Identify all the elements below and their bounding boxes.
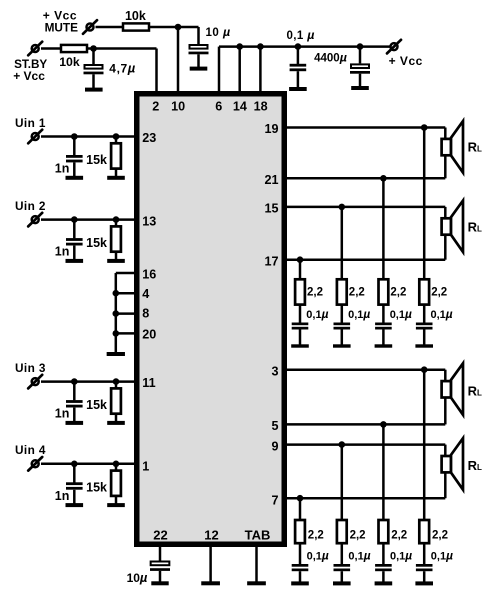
svg-text:Uin 3: Uin 3 (15, 361, 46, 375)
svg-text:0,1µ: 0,1µ (390, 307, 412, 321)
svg-text:15: 15 (264, 201, 278, 215)
svg-text:Uin 2: Uin 2 (15, 199, 46, 213)
svg-text:1n: 1n (55, 162, 70, 176)
svg-text:2,2: 2,2 (431, 287, 447, 299)
svg-text:14: 14 (233, 99, 247, 113)
svg-text:6: 6 (215, 99, 222, 113)
svg-text:TAB: TAB (245, 528, 271, 543)
svg-text:2,2: 2,2 (350, 529, 366, 541)
svg-text:2,2: 2,2 (349, 287, 365, 299)
svg-text:3: 3 (271, 365, 278, 379)
svg-text:4400µ: 4400µ (314, 50, 347, 64)
svg-text:15k: 15k (86, 153, 107, 167)
svg-text:0,1µ: 0,1µ (348, 548, 370, 562)
svg-text:19: 19 (264, 122, 278, 136)
svg-text:22: 22 (153, 528, 167, 543)
svg-text:MUTE: MUTE (45, 21, 79, 35)
svg-text:2: 2 (152, 99, 159, 113)
svg-text:1n: 1n (55, 245, 70, 259)
svg-text:2,2: 2,2 (432, 529, 448, 541)
svg-text:0,1µ: 0,1µ (307, 548, 329, 562)
svg-text:+ Vcc: + Vcc (389, 54, 423, 68)
svg-text:1n: 1n (55, 407, 70, 421)
svg-text:10k: 10k (59, 55, 80, 69)
svg-text:15k: 15k (86, 236, 107, 250)
svg-text:10 µ: 10 µ (206, 25, 231, 39)
svg-text:5: 5 (271, 419, 278, 433)
svg-text:Uin 4: Uin 4 (15, 443, 46, 457)
svg-text:0,1µ: 0,1µ (306, 307, 328, 321)
svg-text:2,2: 2,2 (391, 529, 407, 541)
svg-text:2,2: 2,2 (307, 287, 323, 299)
svg-text:+ Vcc: + Vcc (13, 69, 45, 83)
svg-text:7: 7 (271, 494, 278, 508)
svg-text:0,1µ: 0,1µ (431, 548, 453, 562)
svg-text:2,2: 2,2 (390, 287, 406, 299)
svg-text:10k: 10k (125, 9, 146, 23)
svg-text:Uin 1: Uin 1 (15, 116, 46, 130)
svg-text:4: 4 (142, 287, 149, 301)
svg-text:10µ: 10µ (127, 570, 148, 585)
svg-text:20: 20 (142, 327, 156, 341)
svg-text:13: 13 (142, 215, 156, 229)
svg-text:18: 18 (254, 99, 268, 113)
svg-text:17: 17 (264, 255, 278, 269)
svg-text:15k: 15k (86, 480, 107, 494)
svg-text:23: 23 (142, 131, 156, 145)
svg-text:1: 1 (142, 460, 149, 474)
svg-text:21: 21 (264, 173, 278, 187)
svg-text:4,7µ: 4,7µ (109, 60, 136, 75)
svg-text:0,1µ: 0,1µ (390, 548, 412, 562)
svg-text:11: 11 (142, 376, 155, 390)
svg-text:16: 16 (142, 267, 156, 281)
svg-text:10: 10 (171, 99, 185, 113)
svg-text:0,1 µ: 0,1 µ (287, 28, 315, 42)
svg-text:0,1µ: 0,1µ (348, 307, 370, 321)
svg-text:12: 12 (204, 528, 218, 543)
svg-text:0,1µ: 0,1µ (431, 307, 453, 321)
svg-text:2,2: 2,2 (308, 529, 324, 541)
svg-text:9: 9 (271, 439, 278, 453)
svg-text:1n: 1n (55, 489, 70, 503)
svg-text:8: 8 (142, 307, 149, 321)
svg-text:15k: 15k (86, 398, 107, 412)
